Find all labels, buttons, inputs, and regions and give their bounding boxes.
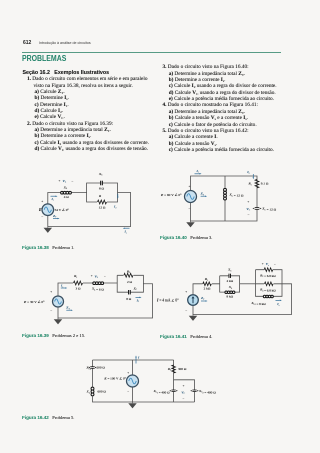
svg-text:2 kΩ: 2 kΩ [204,286,211,290]
svg-text:8 Ω: 8 Ω [126,297,132,301]
svg-text:Is: Is [196,169,199,174]
svg-text:–: – [103,274,106,278]
svg-text:ZT: ZT [200,192,205,197]
svg-text:Is: Is [276,302,279,307]
svg-text:200 Ω: 200 Ω [97,366,106,370]
svg-text:2 Ω: 2 Ω [127,280,133,284]
svg-text:VC: VC [181,390,185,395]
svg-text:R2: R2 [126,269,130,274]
svg-text:XC: XC [98,172,103,177]
svg-text:R: R [98,194,102,198]
svg-text:Is: Is [60,284,63,289]
svg-text:VC: VC [246,207,250,212]
svg-text:ZT: ZT [65,306,70,311]
svg-text:3 Ω: 3 Ω [76,287,82,291]
svg-text:+: + [247,200,249,204]
svg-text:+: + [91,274,93,278]
svg-text:+: + [189,184,191,188]
svg-text:XL = 6 Ω: XL = 6 Ω [91,287,104,292]
svg-text:–: – [273,262,276,266]
svg-text:VL: VL [95,274,99,279]
svg-text:E = 60 V ∠ 0°: E = 60 V ∠ 0° [160,193,182,197]
svg-text:4 Ω: 4 Ω [64,195,70,199]
svg-text:Is: Is [51,197,54,202]
svg-text:R1: R1 [247,182,251,187]
svg-text:I: I [137,355,140,359]
svg-text:XC: XC [133,286,138,291]
svg-text:4 kΩ: 4 kΩ [227,279,234,283]
svg-text:+: + [41,199,43,203]
svg-text:12 Ω: 12 Ω [99,205,106,209]
svg-text:–: – [184,309,187,313]
svg-text:E: E [38,208,42,212]
svg-text:I2: I2 [136,298,139,303]
svg-text:–: – [126,389,129,393]
svg-text:I = 4 mA ∠ 0°: I = 4 mA ∠ 0° [156,298,179,302]
svg-text:XL = 12 Ω: XL = 12 Ω [229,193,244,198]
svg-text:I2: I2 [246,170,249,175]
svg-text:54 V ∠ 0°: 54 V ∠ 0° [55,208,70,212]
svg-text:XL2 = 8 kΩ: XL2 = 8 kΩ [250,301,266,306]
svg-text:XL: XL [228,285,233,290]
svg-text:–: – [188,207,191,211]
svg-text:–: – [247,213,250,217]
svg-text:ZT: ZT [200,296,205,301]
svg-text:E = 30 V ∠ 0°: E = 30 V ∠ 0° [23,300,45,304]
svg-text:8 Ω: 8 Ω [99,187,105,191]
svg-text:8 kΩ: 8 kΩ [227,295,234,299]
svg-text:+: + [183,384,185,388]
svg-text:XL: XL [63,185,68,190]
svg-text:ZT: ZT [52,214,57,219]
svg-text:600 Ω: 600 Ω [98,390,107,394]
svg-text:I2: I2 [113,205,116,210]
svg-text:R2 = 6.8 kΩ: R2 = 6.8 kΩ [259,273,276,278]
svg-text:+: + [59,179,61,183]
svg-text:–: – [40,215,43,219]
svg-text:+: + [262,262,264,266]
svg-text:9.1 Ω: 9.1 Ω [261,182,269,186]
svg-text:+: + [185,290,187,294]
svg-text:300 Ω: 300 Ω [178,367,187,371]
svg-text:XC: XC [227,268,232,273]
svg-text:+: + [127,371,129,375]
svg-text:XL1 = 400 Ω: XL1 = 400 Ω [153,389,170,394]
svg-text:+: + [50,290,52,294]
svg-text:R1: R1 [73,274,77,279]
svg-text:–: – [182,397,185,401]
svg-text:–: – [49,309,52,313]
svg-text:XC = 12 Ω: XC = 12 Ω [261,207,276,212]
svg-text:R3 = 6.8 kΩ: R3 = 6.8 kΩ [259,288,276,293]
svg-text:XC2 = 400 Ω: XC2 = 400 Ω [198,389,216,394]
svg-text:R1: R1 [204,277,208,282]
svg-text:R2: R2 [167,367,171,372]
svg-text:VL: VL [63,179,67,184]
svg-text:–: – [71,179,74,183]
svg-text:E = 100 V ∠ 0°: E = 100 V ∠ 0° [103,376,126,380]
svg-text:XL: XL [86,390,91,395]
svg-text:Vs: Vs [266,262,269,267]
svg-text:Is: Is [124,230,127,235]
svg-text:XC1: XC1 [85,366,91,371]
